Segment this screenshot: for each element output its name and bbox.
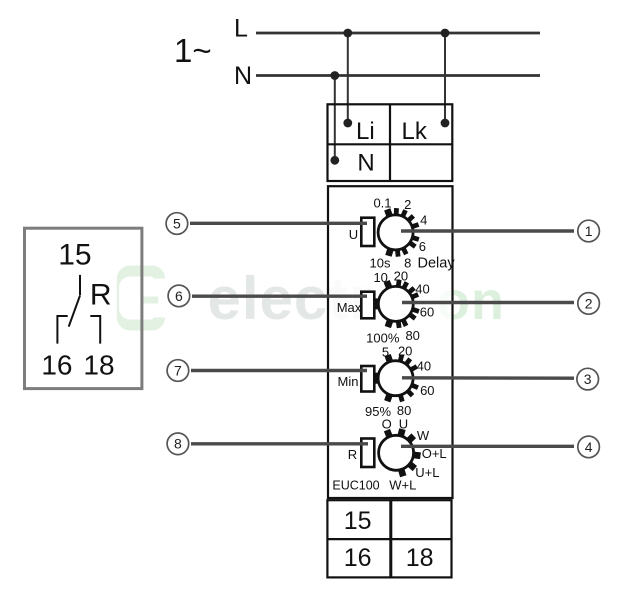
svg-text:U: U [349,227,358,242]
svg-text:L: L [234,15,248,43]
svg-text:40: 40 [417,359,431,374]
svg-text:5: 5 [382,344,389,359]
svg-text:2: 2 [404,197,411,212]
svg-text:60: 60 [420,304,434,319]
svg-text:R: R [348,447,357,462]
svg-text:18: 18 [83,350,114,381]
svg-text:4: 4 [585,439,593,455]
svg-text:7: 7 [174,362,182,378]
svg-text:8: 8 [174,436,182,452]
svg-text:U+L: U+L [415,465,439,480]
svg-text:Lk: Lk [402,118,428,145]
svg-text:10s: 10s [370,255,391,270]
svg-text:6: 6 [419,239,426,254]
svg-text:4: 4 [420,213,427,228]
svg-text:20: 20 [394,269,408,284]
svg-text:0.1: 0.1 [373,196,391,211]
svg-text:15: 15 [344,507,372,535]
svg-text:O: O [382,417,392,432]
svg-text:80: 80 [405,328,419,343]
svg-text:N: N [357,150,374,177]
svg-text:N: N [234,62,252,90]
svg-text:60: 60 [420,383,434,398]
svg-text:W: W [417,428,430,443]
svg-text:Min: Min [338,374,359,389]
svg-text:EUC100: EUC100 [332,479,379,493]
svg-text:15: 15 [58,239,91,272]
svg-text:40: 40 [415,281,429,296]
svg-text:5: 5 [173,215,181,231]
svg-text:R: R [90,279,112,312]
svg-text:Li: Li [356,118,375,145]
svg-text:16: 16 [41,350,72,381]
svg-text:Max: Max [337,300,362,315]
svg-text:3: 3 [584,371,592,387]
svg-text:18: 18 [406,544,434,572]
svg-text:Delay: Delay [418,256,456,272]
svg-text:2: 2 [585,295,593,311]
svg-text:1: 1 [585,223,593,239]
svg-text:10: 10 [373,270,387,285]
svg-text:6: 6 [175,288,183,304]
svg-text:O+L: O+L [422,446,447,461]
svg-text:16: 16 [344,544,372,572]
svg-text:100%: 100% [366,331,400,346]
svg-text:W+L: W+L [389,478,416,493]
svg-text:1~: 1~ [174,32,212,69]
svg-text:U: U [399,417,408,432]
svg-text:20: 20 [398,344,412,359]
